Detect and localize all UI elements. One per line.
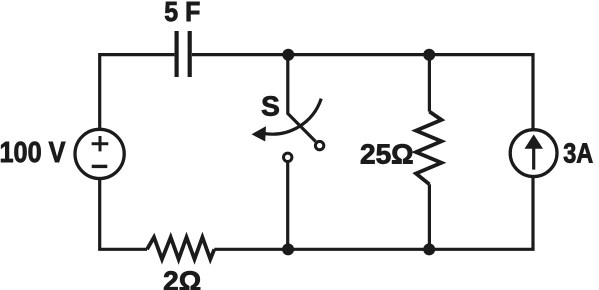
svg-text:2Ω: 2Ω	[163, 266, 201, 290]
svg-text:100 V: 100 V	[0, 137, 66, 169]
svg-text:S: S	[261, 91, 280, 122]
svg-text:5 F: 5 F	[164, 0, 200, 27]
svg-text:3A: 3A	[563, 137, 593, 168]
svg-text:25Ω: 25Ω	[360, 138, 414, 169]
